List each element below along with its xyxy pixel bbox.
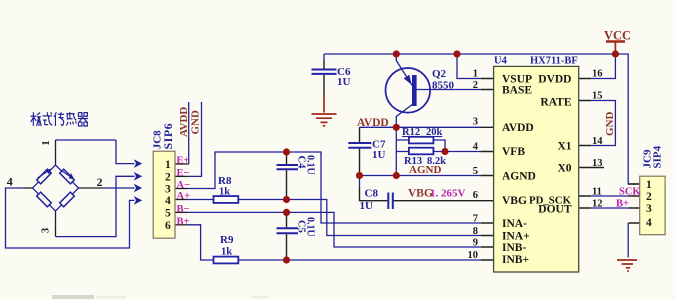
svg-text:1k: 1k [221,247,232,258]
svg-text:5: 5 [165,208,171,220]
svg-text:INA+: INA+ [502,231,530,243]
svg-text:4: 4 [646,217,652,229]
svg-text:X0: X0 [557,163,571,175]
svg-text:11: 11 [592,187,602,198]
svg-text:HX711-BF: HX711-BF [530,56,578,67]
svg-text:1. 265V: 1. 265V [430,188,466,200]
svg-text:8: 8 [473,226,478,237]
svg-text:7: 7 [473,214,478,225]
svg-text:1: 1 [41,140,52,145]
svg-text:B+: B+ [177,216,190,227]
svg-text:GND: GND [604,112,616,137]
svg-text:DVDD: DVDD [538,74,571,86]
svg-text:GND: GND [190,110,202,135]
svg-text:1U: 1U [360,200,374,212]
svg-text:AVDD: AVDD [178,107,190,137]
svg-text:B−: B− [177,204,190,215]
svg-text:4: 4 [473,142,479,153]
svg-text:1U: 1U [337,76,351,88]
svg-text:SIP6: SIP6 [161,123,175,150]
svg-text:2: 2 [97,175,103,189]
svg-text:8550: 8550 [432,80,455,92]
svg-text:13: 13 [592,158,603,169]
svg-text:6: 6 [165,220,171,232]
svg-text:VCC: VCC [604,29,631,43]
svg-text:AGND: AGND [502,171,536,183]
svg-text:B+: B+ [616,199,629,210]
svg-text:9: 9 [473,238,478,249]
svg-text:E+: E+ [177,156,190,167]
svg-text:DOUT: DOUT [538,204,572,216]
svg-text:1: 1 [646,179,652,191]
svg-text:10: 10 [468,250,479,261]
svg-text:6: 6 [473,190,478,201]
svg-text:4: 4 [165,195,171,207]
svg-text:14: 14 [592,136,603,147]
svg-text:E−: E− [177,168,190,179]
svg-text:INA-: INA- [502,218,527,230]
svg-text:BASE: BASE [502,85,532,97]
svg-text:RATE: RATE [540,97,571,109]
svg-text:A+: A+ [177,191,191,202]
svg-text:SIP4: SIP4 [652,145,664,168]
svg-text:12: 12 [592,199,603,210]
svg-text:AVDD: AVDD [357,117,389,129]
svg-text:C8: C8 [365,188,379,200]
svg-text:X1: X1 [557,141,571,153]
svg-text:AVDD: AVDD [502,122,534,134]
svg-text:INB-: INB- [502,242,526,254]
svg-text:R12: R12 [402,127,420,138]
svg-text:0.1U: 0.1U [305,217,316,237]
svg-text:1: 1 [473,69,478,80]
svg-text:3: 3 [41,228,52,233]
svg-text:2: 2 [646,191,652,203]
svg-text:R9: R9 [220,234,234,246]
svg-text:1: 1 [165,159,171,171]
svg-text:2: 2 [165,172,171,184]
svg-text:3: 3 [165,184,171,196]
svg-text:2: 2 [473,80,478,91]
svg-text:1U: 1U [372,149,386,161]
svg-text:AGND: AGND [409,164,441,176]
svg-text:A−: A− [177,180,191,191]
svg-text:VBG: VBG [502,195,527,207]
svg-text:0.1U: 0.1U [305,155,316,175]
svg-text:R8: R8 [218,175,232,187]
svg-text:5: 5 [473,166,478,177]
svg-text:VFB: VFB [502,146,525,158]
svg-text:15: 15 [592,91,603,102]
svg-text:Q2: Q2 [432,68,447,80]
svg-text:1k: 1k [219,187,230,198]
svg-text:INB+: INB+ [502,254,529,266]
svg-text:4: 4 [7,175,13,189]
svg-text:U4: U4 [494,56,508,67]
svg-text:SCK: SCK [619,187,641,198]
svg-text:20k: 20k [426,127,443,138]
svg-text:3: 3 [473,116,478,127]
svg-text:16: 16 [592,69,603,80]
svg-text:3: 3 [646,203,652,215]
